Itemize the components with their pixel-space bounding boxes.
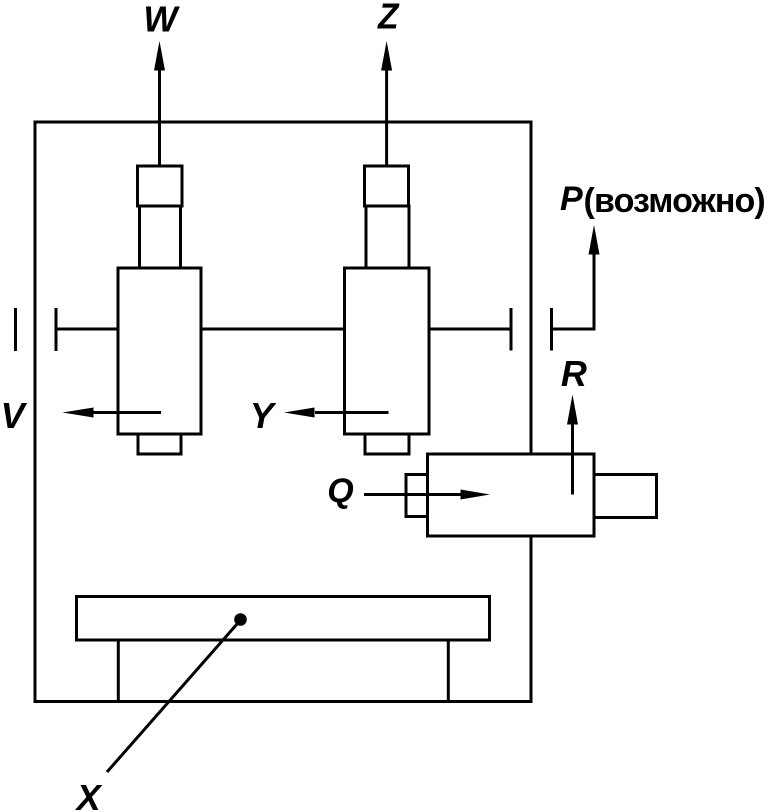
spindle head 2 body [345, 268, 430, 434]
centerline segment left [56, 328, 118, 331]
svg-text:W: W [143, 0, 180, 40]
arrowhead Y [284, 408, 315, 418]
spindle head 2 nose [365, 434, 409, 454]
arrow Y [315, 411, 389, 414]
centerline segment middle [201, 328, 345, 331]
spindle head 2 arrow Z shaft [385, 67, 388, 166]
spindle head 1 nose [138, 434, 181, 454]
spindle head 2 quill [366, 206, 409, 268]
arrowhead Z [381, 41, 392, 71]
machine column outline [35, 122, 531, 702]
svg-text:Q: Q [327, 472, 353, 510]
table base left side [117, 640, 120, 702]
left inner journal tick [55, 308, 58, 351]
arrowhead P [589, 225, 600, 255]
svg-text:R: R [561, 353, 587, 394]
leader dot on table [234, 613, 247, 626]
spindle head 1 top block [138, 166, 183, 206]
horizontal unit body [428, 454, 595, 536]
right outer journal tick [550, 308, 553, 351]
horizontal unit left trunnion [406, 475, 428, 517]
spindle head 1 arrow W shaft [158, 67, 161, 166]
right inner journal tick [510, 308, 513, 351]
leader line X [107, 620, 241, 773]
arrow R shaft [571, 423, 574, 495]
svg-text:X: X [75, 777, 103, 812]
horizontal unit right trunnion [594, 475, 657, 518]
left outer journal tick [14, 308, 17, 351]
svg-text:Z: Z [377, 0, 400, 36]
spindle head 1 quill [140, 206, 181, 268]
arrowhead R [567, 395, 578, 425]
P arrow elbow [552, 253, 595, 329]
svg-text:V: V [1, 395, 28, 436]
spindle head 1 body [118, 268, 201, 434]
work table top [77, 597, 490, 641]
arrow V [92, 411, 161, 414]
spindle head 2 top block [365, 166, 409, 206]
table base right side [447, 640, 450, 702]
arrow Q shaft [364, 493, 462, 496]
arrowhead Q [461, 490, 491, 500]
centerline segment right [429, 328, 511, 331]
svg-text:(возможно): (возможно) [584, 182, 765, 220]
svg-text:P: P [560, 180, 583, 218]
arrowhead W [154, 41, 165, 71]
svg-text:Y: Y [250, 395, 277, 436]
arrowhead V [63, 408, 94, 418]
